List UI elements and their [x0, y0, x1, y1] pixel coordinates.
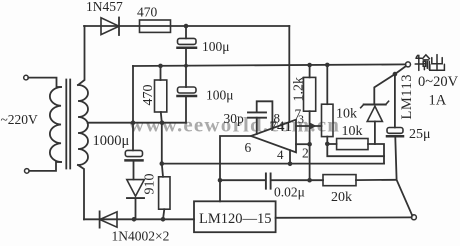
svg-text:470: 470: [141, 85, 156, 106]
svg-text:~220V: ~220V: [1, 112, 39, 127]
svg-text:30p: 30p: [224, 111, 245, 126]
svg-text:1N457: 1N457: [86, 0, 123, 14]
svg-text:6: 6: [245, 140, 252, 155]
svg-text:2: 2: [302, 146, 309, 161]
svg-text:910: 910: [143, 174, 158, 195]
svg-text:LM120—15: LM120—15: [199, 211, 272, 227]
svg-text:25μ: 25μ: [409, 127, 431, 142]
svg-text:20k: 20k: [331, 190, 352, 205]
svg-text:0.02μ: 0.02μ: [274, 185, 305, 200]
svg-text:100μ: 100μ: [202, 39, 230, 54]
svg-text:10k: 10k: [336, 107, 357, 122]
svg-text:470: 470: [137, 4, 158, 19]
svg-text:1000μ: 1000μ: [93, 133, 130, 149]
svg-text:8: 8: [274, 111, 281, 126]
svg-text:0~20V: 0~20V: [418, 74, 459, 90]
svg-text:100μ: 100μ: [206, 88, 234, 103]
svg-text:1.2k: 1.2k: [292, 77, 307, 102]
svg-text:1N4002×2: 1N4002×2: [112, 229, 170, 244]
svg-text:LM113: LM113: [399, 74, 415, 119]
svg-text:1A: 1A: [429, 93, 447, 109]
svg-text:10k: 10k: [342, 124, 363, 139]
svg-text:4: 4: [277, 147, 284, 162]
svg-text:3: 3: [298, 112, 304, 126]
